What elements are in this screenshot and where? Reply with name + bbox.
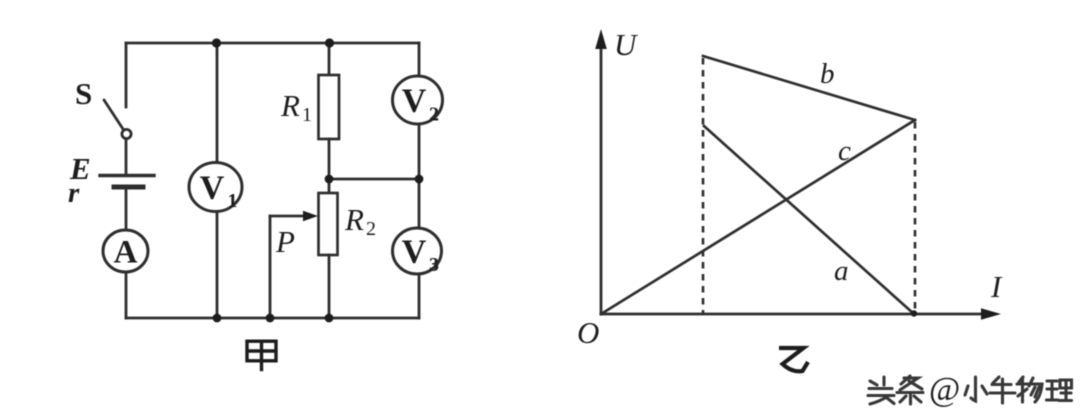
watermark char xiao (小) — [965, 377, 987, 401]
wire top rail to R1 — [328, 43, 331, 75]
wire V3 to bottom rail — [418, 274, 421, 318]
svg-text:R: R — [344, 202, 364, 237]
wire switch to battery — [125, 140, 128, 174]
voltmeter V2 circle — [393, 76, 443, 124]
voltmeter V1 circle — [189, 163, 242, 212]
svg-text:@: @ — [929, 371, 960, 408]
watermark char niu (牛) — [990, 377, 1015, 403]
node middle right junction — [415, 175, 424, 184]
svg-text:1: 1 — [302, 104, 312, 126]
svg-text:P: P — [275, 224, 295, 259]
wire ammeter to bottom rail — [125, 272, 128, 318]
battery E short plate — [114, 185, 143, 190]
watermark toutiao at xiaoniu wuli — [868, 371, 1072, 408]
svg-text:c: c — [838, 135, 851, 167]
svg-text:1: 1 — [228, 190, 238, 212]
svg-text:b: b — [820, 58, 835, 90]
graph line a — [704, 126, 914, 314]
wire R2 to bottom rail — [328, 255, 331, 318]
svg-text:r: r — [68, 177, 80, 209]
switch S blade — [104, 100, 123, 129]
watermark char tou (头) — [868, 377, 894, 404]
U axis arrowhead — [595, 29, 607, 49]
svg-text:A: A — [114, 235, 138, 271]
label jia (甲) caption — [247, 341, 276, 371]
svg-text:I: I — [990, 269, 1003, 304]
switch S contact circle — [122, 129, 131, 138]
wire middle node to right branch — [329, 178, 419, 181]
svg-text:V: V — [402, 83, 427, 120]
graph I axis — [601, 313, 982, 316]
wire V1 branch upper — [216, 43, 219, 163]
watermark char wu (物) — [1017, 377, 1042, 402]
wire R1 to R2 — [328, 139, 331, 193]
battery E long plate — [100, 174, 154, 177]
I axis arrowhead — [981, 308, 1001, 320]
graph U axis — [601, 48, 982, 314]
watermark char li (理) — [1047, 380, 1072, 401]
svg-text:a: a — [834, 255, 849, 287]
graph line b — [703, 56, 915, 120]
node bottom P junction — [266, 314, 275, 323]
dashed guide left — [702, 58, 705, 314]
dashed guide right — [914, 122, 917, 314]
svg-text:R: R — [280, 88, 300, 123]
wire V1 branch lower — [216, 212, 219, 319]
svg-text:V: V — [200, 170, 225, 207]
node bottom R2 junction — [325, 314, 334, 323]
resistor R2 body — [319, 193, 338, 255]
node top R1 junction — [325, 38, 334, 47]
svg-text:U: U — [614, 27, 639, 62]
node bottom V1 junction — [213, 314, 222, 323]
node top V1 junction — [212, 38, 221, 47]
voltmeter V3 circle — [393, 228, 442, 274]
label yi (乙) caption — [779, 348, 808, 371]
ammeter A circle — [103, 230, 148, 272]
svg-text:S: S — [75, 76, 92, 111]
svg-text:O: O — [577, 315, 599, 350]
graph line c — [601, 120, 915, 314]
rheostat slider P down wire — [269, 216, 272, 318]
node middle R junction — [325, 175, 334, 184]
wire V2 to V3 — [418, 124, 421, 229]
wire top rail — [126, 42, 419, 45]
wire left upper to switch — [125, 43, 128, 107]
svg-text:2: 2 — [366, 218, 376, 240]
svg-text:2: 2 — [429, 104, 439, 126]
svg-text:3: 3 — [429, 254, 439, 276]
svg-text:V: V — [402, 234, 427, 271]
watermark char tiao (条) — [897, 376, 923, 404]
wire right branch top — [418, 43, 421, 77]
node line a meets I axis — [911, 310, 917, 316]
rheostat slider P wire — [270, 215, 303, 218]
wire battery to ammeter — [125, 190, 128, 230]
resistor R1 body — [319, 75, 340, 139]
wire bottom rail — [126, 317, 419, 320]
rheostat slider arrowhead — [303, 211, 318, 221]
